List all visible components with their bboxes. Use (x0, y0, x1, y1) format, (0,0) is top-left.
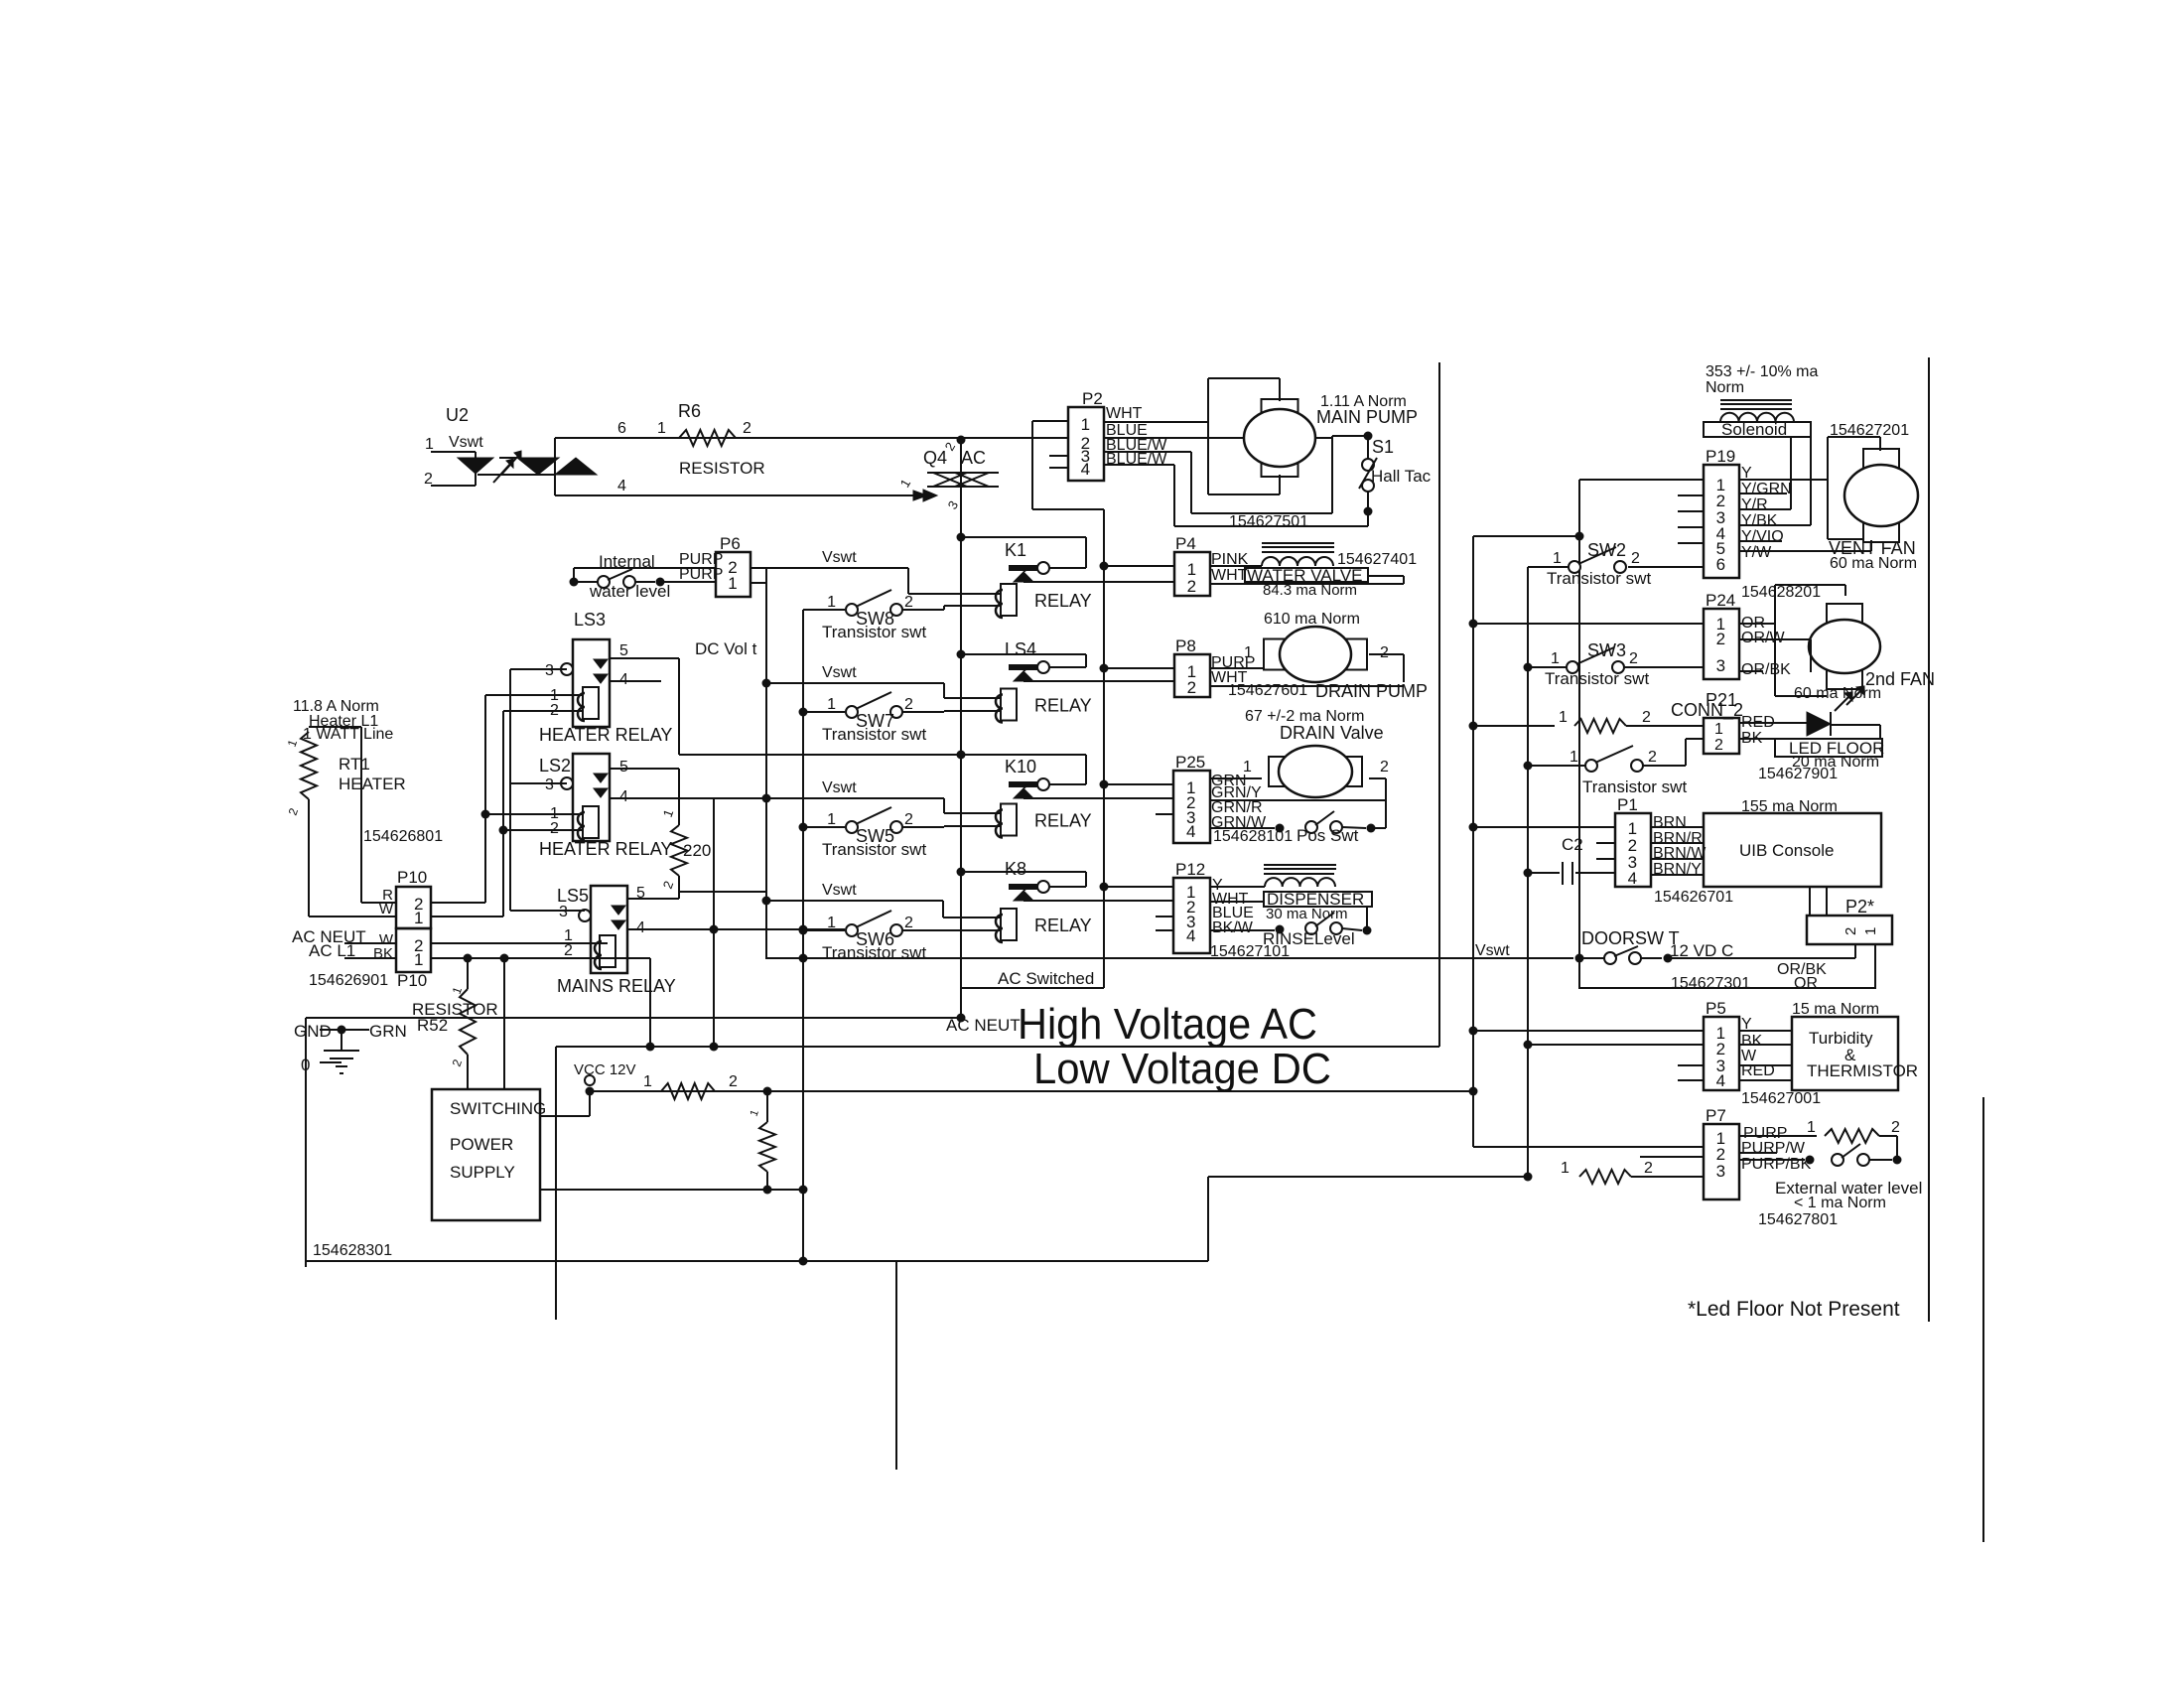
svg-text:P5: P5 (1706, 999, 1726, 1018)
svg-text:1: 1 (1081, 415, 1090, 434)
svg-text:154628201: 154628201 (1741, 584, 1821, 601)
svg-text:154626901: 154626901 (309, 972, 388, 989)
svg-text:Y/GRN: Y/GRN (1741, 481, 1792, 497)
svg-text:OR: OR (1794, 975, 1818, 992)
svg-text:Q4: Q4 (923, 448, 947, 468)
svg-text:P8: P8 (1175, 636, 1196, 655)
svg-text:Vswt: Vswt (822, 549, 857, 566)
svg-text:SUPPLY: SUPPLY (450, 1163, 515, 1182)
svg-text:DRAIN PUMP: DRAIN PUMP (1315, 681, 1428, 701)
svg-text:HEATER RELAY: HEATER RELAY (539, 839, 672, 859)
svg-text:60 ma Norm: 60 ma Norm (1794, 685, 1881, 702)
svg-text:P12: P12 (1175, 860, 1205, 879)
svg-text:4: 4 (1716, 1071, 1725, 1090)
svg-text:1: 1 (1559, 709, 1568, 726)
svg-text:P1: P1 (1617, 795, 1638, 814)
svg-text:Vswt: Vswt (449, 434, 483, 451)
svg-text:154628301: 154628301 (313, 1242, 392, 1259)
svg-text:LS2: LS2 (539, 756, 571, 776)
svg-text:154627301: 154627301 (1671, 975, 1750, 992)
svg-text:154626701: 154626701 (1654, 889, 1733, 906)
svg-text:RELAY: RELAY (1034, 591, 1092, 611)
svg-text:Hall Tac: Hall Tac (1371, 467, 1432, 486)
svg-text:4: 4 (1186, 822, 1195, 841)
svg-text:1: 1 (1244, 644, 1253, 661)
svg-text:K1: K1 (1005, 540, 1026, 560)
svg-text:Transistor swt: Transistor swt (822, 840, 926, 859)
svg-text:P2*: P2* (1845, 897, 1874, 917)
svg-text:P2: P2 (1082, 389, 1103, 408)
svg-text:Turbidity: Turbidity (1809, 1029, 1873, 1048)
svg-text:353 +/- 10% ma: 353 +/- 10% ma (1706, 363, 1819, 380)
svg-text:AC Switched: AC Switched (998, 969, 1094, 988)
svg-text:155 ma Norm: 155 ma Norm (1741, 798, 1838, 815)
svg-text:W: W (379, 901, 394, 917)
svg-text:HEATER RELAY: HEATER RELAY (539, 725, 672, 745)
svg-text:220: 220 (683, 841, 711, 860)
svg-text:4: 4 (1081, 460, 1090, 479)
svg-text:RELAY: RELAY (1034, 916, 1092, 935)
svg-text:1: 1 (827, 696, 836, 713)
svg-text:2: 2 (1648, 749, 1657, 766)
svg-text:RELAY: RELAY (1034, 811, 1092, 831)
svg-text:3: 3 (545, 776, 554, 793)
svg-text:Y/W: Y/W (1741, 544, 1772, 561)
svg-text:MAINS RELAY: MAINS RELAY (557, 976, 676, 996)
svg-text:1: 1 (1551, 650, 1560, 667)
svg-text:2: 2 (564, 942, 573, 959)
svg-text:1: 1 (827, 594, 836, 611)
svg-text:Solenoid: Solenoid (1721, 420, 1787, 439)
svg-text:3: 3 (1716, 656, 1725, 675)
svg-text:2: 2 (1716, 630, 1725, 648)
svg-text:6: 6 (617, 420, 626, 437)
svg-text:154627601: 154627601 (1228, 682, 1307, 699)
svg-text:BK/W: BK/W (1212, 919, 1254, 936)
svg-text:4: 4 (636, 919, 645, 936)
svg-text:2: 2 (729, 1073, 738, 1090)
svg-text:High Voltage AC: High Voltage AC (1018, 1000, 1317, 1049)
svg-text:UIB Console: UIB Console (1739, 841, 1834, 860)
svg-text:154628101: 154628101 (1213, 828, 1293, 845)
svg-text:1: 1 (643, 1073, 652, 1090)
svg-text:2: 2 (1714, 737, 1723, 754)
svg-text:Y/R: Y/R (1741, 496, 1768, 513)
svg-text:2: 2 (1380, 644, 1389, 661)
svg-text:154627001: 154627001 (1741, 1090, 1821, 1107)
svg-text:2: 2 (1631, 550, 1640, 567)
svg-text:4: 4 (1186, 926, 1195, 945)
svg-text:BK: BK (373, 945, 393, 962)
svg-text:K10: K10 (1005, 757, 1036, 776)
svg-text:Y/BK: Y/BK (1741, 512, 1778, 529)
svg-text:Pos Swt: Pos Swt (1297, 826, 1359, 845)
svg-text:1: 1 (1553, 550, 1562, 567)
svg-text:THERMISTOR: THERMISTOR (1807, 1061, 1918, 1080)
svg-text:1 WATT Line: 1 WATT Line (303, 726, 393, 743)
svg-text:< 1 ma Norm: < 1 ma Norm (1794, 1195, 1886, 1211)
svg-text:4: 4 (619, 671, 628, 688)
svg-text:2: 2 (1380, 759, 1389, 776)
svg-text:2: 2 (743, 420, 751, 437)
svg-text:610 ma Norm: 610 ma Norm (1264, 611, 1360, 628)
svg-text:P25: P25 (1175, 753, 1205, 772)
svg-text:RESISTOR: RESISTOR (679, 459, 765, 478)
svg-text:4: 4 (617, 478, 626, 494)
svg-text:Norm: Norm (1706, 379, 1744, 396)
svg-text:154626801: 154626801 (363, 828, 443, 845)
svg-text:1: 1 (1714, 721, 1723, 738)
svg-text:P19: P19 (1706, 447, 1735, 466)
svg-text:VCC 12V: VCC 12V (574, 1061, 636, 1078)
svg-text:Transistor swt: Transistor swt (1545, 669, 1649, 688)
svg-text:PURP/W: PURP/W (1741, 1140, 1806, 1157)
svg-text:U2: U2 (446, 405, 469, 425)
svg-text:OR/BK: OR/BK (1741, 661, 1791, 678)
svg-text:2: 2 (1187, 577, 1196, 596)
svg-text:Vswt: Vswt (822, 779, 857, 796)
svg-text:POWER: POWER (450, 1135, 513, 1154)
svg-text:1: 1 (657, 420, 666, 437)
svg-text:154627801: 154627801 (1758, 1211, 1838, 1228)
svg-text:Transistor swt: Transistor swt (1547, 569, 1651, 588)
svg-text:Vswt: Vswt (1475, 942, 1510, 959)
svg-text:2: 2 (550, 820, 559, 837)
svg-text:K8: K8 (1005, 859, 1026, 879)
svg-text:1: 1 (1807, 1119, 1816, 1136)
svg-text:2: 2 (904, 696, 913, 713)
svg-text:P24: P24 (1706, 591, 1735, 610)
svg-text:2: 2 (1644, 1160, 1653, 1177)
svg-text:LS5: LS5 (557, 886, 589, 906)
svg-text:15 ma Norm: 15 ma Norm (1792, 1001, 1879, 1018)
svg-text:3: 3 (1716, 1162, 1725, 1181)
svg-text:R6: R6 (678, 401, 701, 421)
svg-text:OR/W: OR/W (1741, 630, 1785, 646)
svg-text:DC Vol t: DC Vol t (695, 639, 757, 658)
svg-text:1: 1 (1862, 927, 1879, 935)
svg-text:S1: S1 (1372, 437, 1394, 457)
svg-text:RELAY: RELAY (1034, 696, 1092, 716)
svg-text:Transistor swt: Transistor swt (822, 623, 926, 641)
svg-text:5: 5 (619, 759, 628, 776)
svg-text:SW3: SW3 (1587, 640, 1626, 660)
svg-text:AC: AC (961, 448, 986, 468)
svg-text:Y/VIO: Y/VIO (1741, 528, 1784, 545)
svg-text:1: 1 (425, 436, 434, 453)
svg-text:3: 3 (545, 662, 554, 679)
svg-text:MAIN PUMP: MAIN PUMP (1316, 407, 1418, 427)
svg-text:2: 2 (1642, 709, 1651, 726)
svg-text:2: 2 (904, 915, 913, 931)
svg-text:4: 4 (1628, 869, 1637, 888)
svg-text:154627901: 154627901 (1758, 766, 1838, 782)
svg-text:HEATER: HEATER (339, 775, 406, 793)
svg-text:LS3: LS3 (574, 610, 606, 630)
svg-text:GRN: GRN (369, 1022, 407, 1041)
svg-text:DOORSW T: DOORSW T (1581, 928, 1680, 948)
svg-text:Vswt: Vswt (822, 882, 857, 899)
svg-text:LS4: LS4 (1005, 639, 1036, 659)
svg-text:154627501: 154627501 (1229, 513, 1308, 530)
svg-text:30 ma Norm: 30 ma Norm (1266, 906, 1348, 922)
svg-text:1: 1 (1561, 1160, 1570, 1177)
svg-text:C2: C2 (1562, 835, 1583, 854)
svg-text:1: 1 (1570, 749, 1578, 766)
svg-text:AC NEUT: AC NEUT (946, 1016, 1021, 1035)
svg-text:3: 3 (559, 904, 568, 920)
svg-text:DRAIN Valve: DRAIN Valve (1280, 723, 1384, 743)
svg-text:2: 2 (1187, 678, 1196, 697)
svg-text:2: 2 (1629, 650, 1638, 667)
svg-text:WHT: WHT (1106, 405, 1143, 422)
svg-text:1: 1 (414, 950, 423, 969)
svg-text:1: 1 (1243, 759, 1252, 776)
svg-text:154627101: 154627101 (1210, 943, 1290, 960)
svg-text:1: 1 (728, 574, 737, 593)
svg-text:Low Voltage DC: Low Voltage DC (1033, 1045, 1331, 1093)
svg-text:12 VD C: 12 VD C (1670, 941, 1733, 960)
svg-text:6: 6 (1716, 555, 1725, 574)
svg-text:Transistor swt: Transistor swt (822, 725, 926, 744)
svg-text:P4: P4 (1175, 534, 1196, 553)
svg-text:5: 5 (619, 642, 628, 659)
svg-text:GND: GND (294, 1022, 332, 1041)
svg-text:PURP/BK: PURP/BK (1741, 1156, 1812, 1173)
svg-text:60 ma Norm: 60 ma Norm (1830, 555, 1917, 572)
svg-text:*Led Floor Not Present: *Led Floor Not Present (1688, 1298, 1900, 1321)
svg-text:P7: P7 (1706, 1106, 1726, 1125)
svg-text:2: 2 (904, 594, 913, 611)
svg-text:P10: P10 (397, 971, 427, 990)
svg-text:P10: P10 (397, 868, 427, 887)
svg-text:2: 2 (1891, 1119, 1900, 1136)
svg-text:4: 4 (619, 788, 628, 805)
svg-text:RT1: RT1 (339, 755, 370, 774)
svg-text:1: 1 (414, 909, 423, 927)
svg-text:Transistor swt: Transistor swt (1582, 777, 1687, 796)
svg-text:WHT: WHT (1211, 567, 1248, 584)
svg-text:Vswt: Vswt (822, 664, 857, 681)
svg-text:Transistor swt: Transistor swt (822, 943, 926, 962)
svg-text:2: 2 (904, 811, 913, 828)
svg-text:1: 1 (827, 811, 836, 828)
svg-text:SW2: SW2 (1587, 540, 1626, 560)
svg-text:BRN: BRN (1653, 814, 1687, 831)
svg-text:2: 2 (1843, 927, 1859, 935)
svg-text:SWITCHING: SWITCHING (450, 1099, 546, 1118)
